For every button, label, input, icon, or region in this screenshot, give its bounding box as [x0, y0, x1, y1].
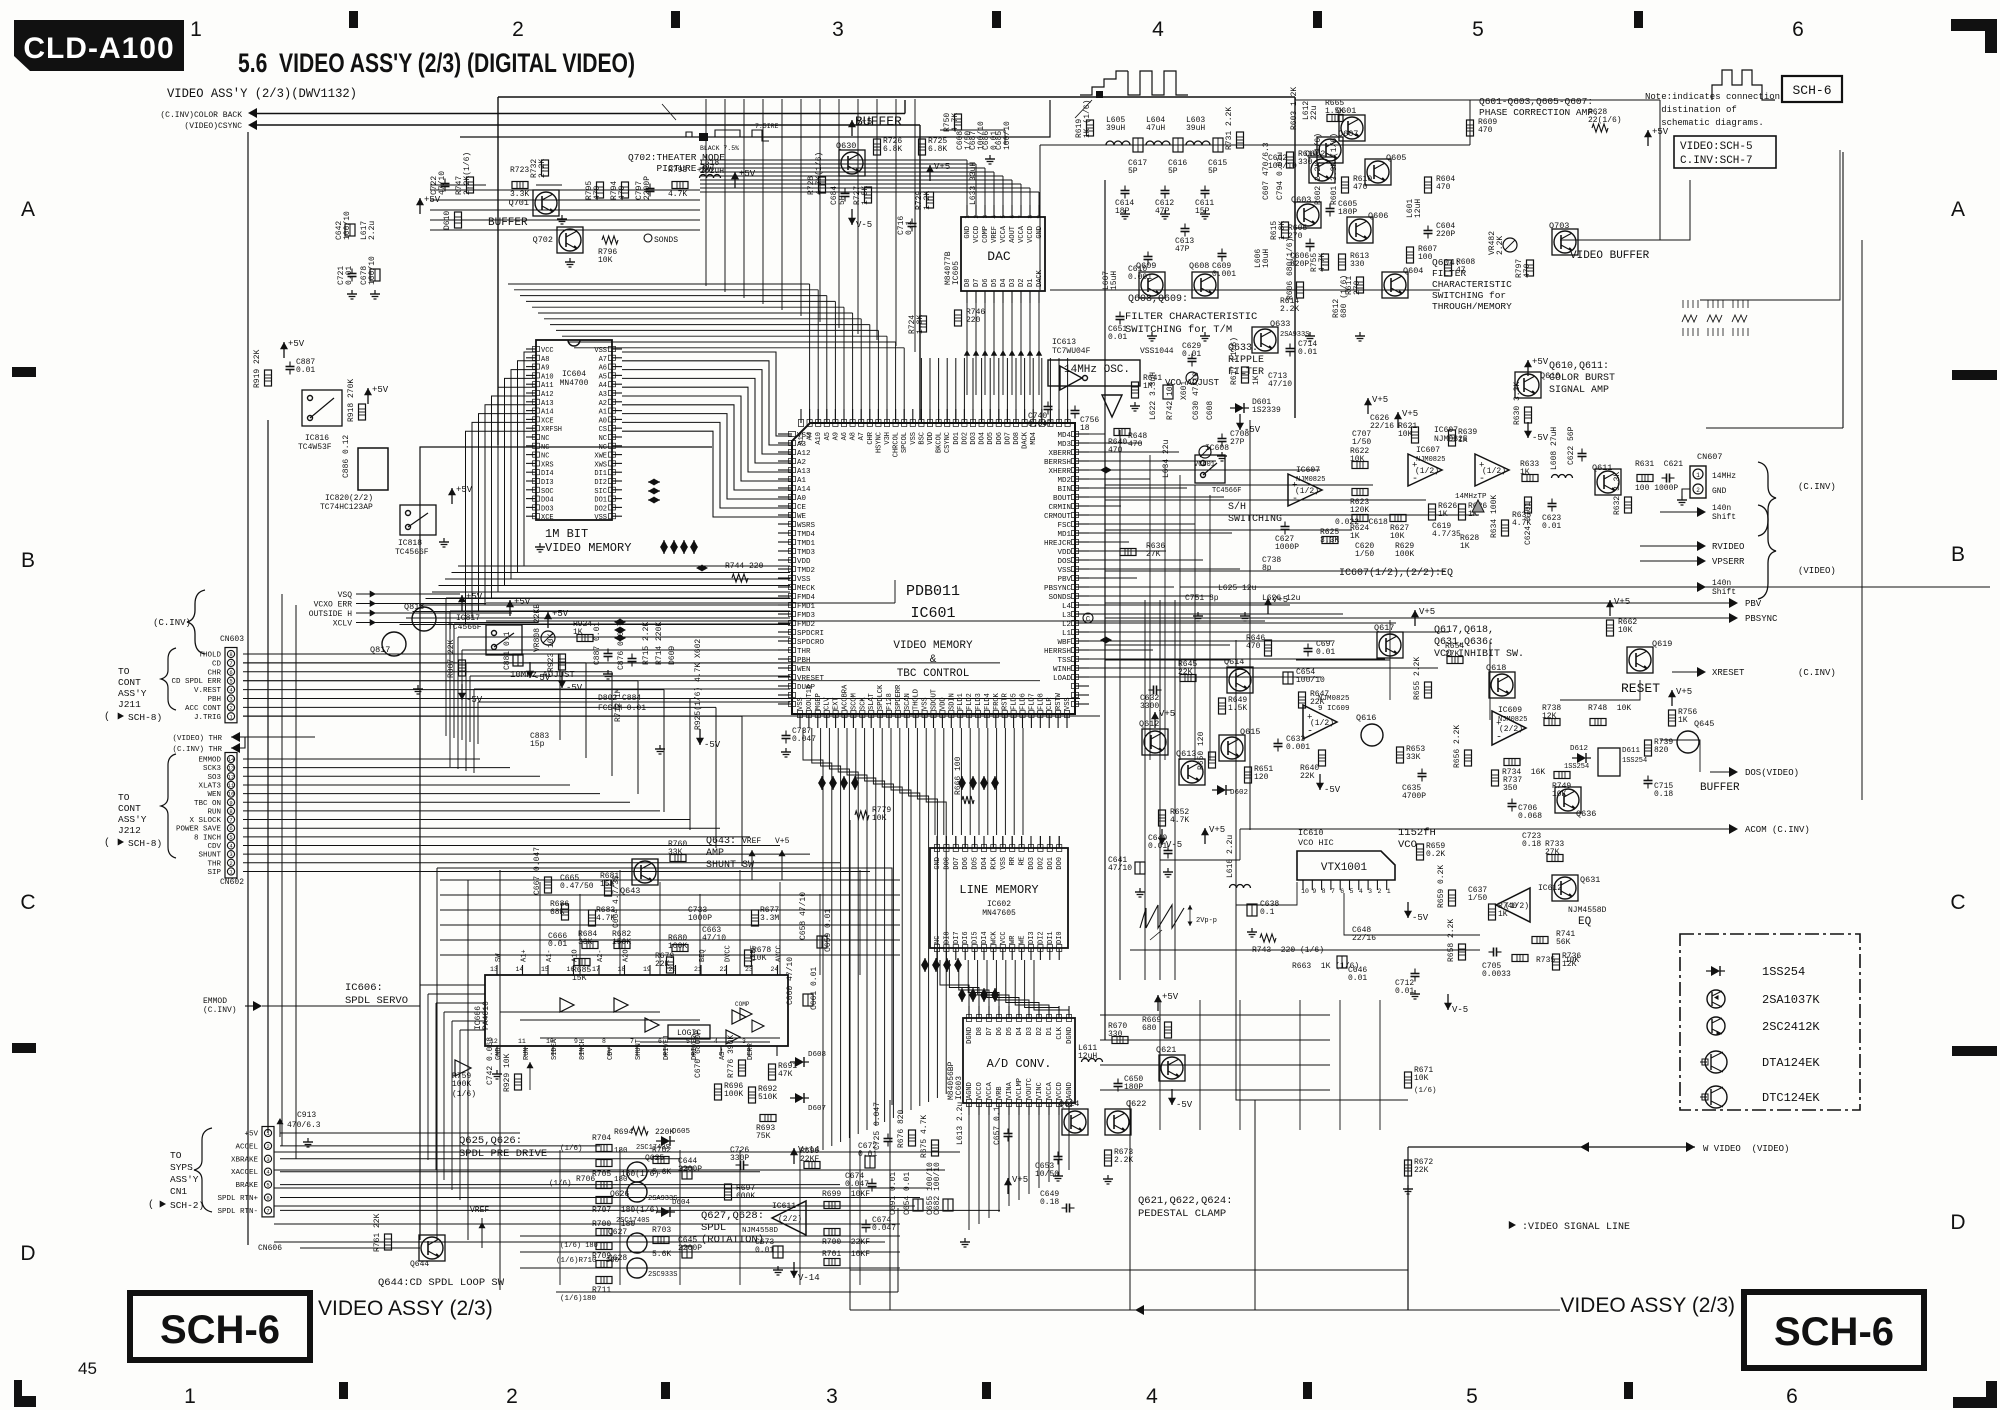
svg-text:C: C [1086, 616, 1090, 624]
capacitor C659 [817, 936, 827, 948]
svg-text:distination of: distination of [1645, 105, 1737, 115]
svg-text:PBSYNC: PBSYNC [1044, 585, 1072, 593]
resistor R624 [1352, 515, 1368, 522]
svg-text:2.2K: 2.2K [1496, 236, 1505, 255]
svg-text:C742 0.068: C742 0.068 [486, 1037, 495, 1085]
svg-text:THR: THR [207, 860, 221, 868]
svg-text:Q633: Q633 [1270, 319, 1290, 329]
svg-text:J.TRIG: J.TRIG [194, 714, 222, 722]
IC604 MN4700 1M bit video memory [536, 340, 612, 520]
svg-text:MD4: MD4 [1030, 432, 1038, 445]
svg-text:XCE: XCE [541, 417, 554, 425]
svg-text:13: 13 [490, 966, 498, 973]
svg-text:A12: A12 [797, 450, 811, 458]
transistor Q626 [627, 1182, 647, 1202]
svg-text:22/16: 22/16 [1352, 934, 1376, 943]
svg-text:4: 4 [991, 215, 998, 219]
resistor R647 [1299, 692, 1306, 708]
svg-text:220P: 220P [1436, 230, 1455, 239]
svg-text:5: 5 [1350, 888, 1354, 895]
transistor Q615 [1219, 735, 1245, 761]
svg-text:WE: WE [1019, 936, 1027, 944]
resistor R650 [1209, 752, 1216, 768]
resistor R639 [1449, 430, 1456, 446]
resistor R652 [1159, 810, 1166, 826]
svg-text:FLD8: FLD8 [1037, 693, 1045, 710]
svg-text:SOC: SOC [541, 488, 554, 496]
diode D601 [1235, 403, 1244, 413]
capacitor C612 [1161, 190, 1170, 192]
svg-text:7: 7 [1018, 215, 1025, 219]
svg-text:L4: L4 [1062, 603, 1072, 611]
power -5V ic609 [1319, 774, 1321, 790]
resistor R630 [1525, 407, 1532, 423]
svg-text:GND: GND [934, 857, 942, 870]
ground R672 [1407, 1185, 1409, 1189]
resistor R666 [962, 796, 974, 804]
bus J211 long runs [243, 662, 1000, 664]
svg-text:A10: A10 [541, 373, 554, 381]
svg-text:XRS: XRS [541, 461, 554, 469]
svg-text:220: 220 [966, 316, 981, 325]
diode D607 [795, 1093, 804, 1103]
svg-text:A3: A3 [599, 391, 607, 399]
capacitor C613 [1181, 228, 1190, 230]
resistor R748 [1590, 719, 1606, 726]
svg-text:A0: A0 [599, 417, 607, 425]
svg-text:Q627: Q627 [608, 1228, 627, 1237]
signal arrows row line memory [921, 958, 929, 965]
svg-text:L634 22u: L634 22u [1162, 439, 1171, 478]
tick mark bottom [339, 1382, 348, 1399]
op-amp IC607a [1288, 474, 1322, 506]
svg-text:1: 1 [1696, 472, 1700, 479]
svg-text:2.2uH: 2.2uH [700, 167, 724, 176]
wire right vertical 2 [1861, 240, 1863, 640]
svg-text:C682 100/10: C682 100/10 [933, 1162, 942, 1215]
svg-text:2SC1740S: 2SC1740S [616, 1217, 650, 1225]
power V+5 reset [1609, 600, 1611, 616]
resistor R632 [1625, 497, 1632, 513]
svg-text:CSYNC: CSYNC [944, 432, 952, 453]
svg-text:THROUGH/MEMORY: THROUGH/MEMORY [1432, 301, 1512, 312]
IC606 internal amp 1 [455, 1060, 471, 1076]
svg-text:R659 0.2K: R659 0.2K [1437, 865, 1446, 908]
transistor Q613 [1179, 759, 1205, 785]
svg-text:R655 2.2K: R655 2.2K [1413, 657, 1422, 700]
svg-text:DI0: DI0 [1056, 931, 1064, 944]
legend transistor DTC124EK [1705, 1086, 1727, 1108]
S/H area wires [1105, 469, 1320, 471]
capacitor C726 [740, 1161, 742, 1170]
svg-text:L2: L2 [1062, 621, 1071, 629]
svg-text:HREJCR: HREJCR [1044, 540, 1072, 548]
waveform 7.5IRE black level symbol [679, 132, 699, 137]
svg-text:AGND: AGND [966, 1082, 974, 1099]
svg-text:330: 330 [1350, 260, 1365, 269]
label video signal line legend [1509, 1221, 1516, 1229]
IC601 pin number band right [1072, 431, 1079, 436]
svg-text:(1/6): (1/6) [452, 1090, 476, 1099]
svg-text:RSTW: RSTW [1055, 692, 1063, 710]
svg-text:(C.INV): (C.INV) [153, 618, 191, 628]
svg-text:R743 220 (1/6): R743 220 (1/6) [1252, 946, 1324, 955]
inverter IC613b [1102, 395, 1122, 417]
capacitor C725 [884, 1138, 893, 1140]
svg-text:R606 680(1/6): R606 680(1/6) [1286, 238, 1295, 300]
svg-text:GND: GND [1712, 487, 1727, 496]
resistor R648b [1319, 750, 1326, 766]
svg-text:6.8K: 6.8K [928, 145, 947, 154]
svg-text:-5V: -5V [534, 673, 551, 683]
capacitor C740 [1044, 406, 1053, 408]
transistor Q645 [1677, 731, 1699, 753]
svg-text:DO7: DO7 [953, 857, 961, 870]
svg-text:A7: A7 [858, 432, 866, 440]
svg-text:C751 8p: C751 8p [1185, 594, 1219, 603]
svg-text:8INCH: 8INCH [579, 1039, 587, 1060]
capacitor C635 [1418, 773, 1427, 775]
bus below IC604 to left arrows [430, 593, 460, 595]
svg-text:2: 2 [1377, 888, 1381, 895]
svg-text:Q619: Q619 [1652, 639, 1672, 649]
svg-text:10K: 10K [872, 814, 887, 823]
svg-text:17: 17 [592, 966, 600, 973]
svg-text:Q630: Q630 [836, 141, 856, 151]
resistor R749 [1554, 772, 1570, 779]
svg-text:IC817: IC817 [456, 614, 480, 623]
svg-text:(: ( [148, 1199, 154, 1211]
svg-text:WE: WE [797, 513, 807, 521]
svg-text:-5V: -5V [1244, 425, 1261, 435]
svg-text:1SS254: 1SS254 [1762, 965, 1805, 979]
transistor Q625 [627, 1162, 647, 1182]
svg-text:VIDEO MEMORY: VIDEO MEMORY [545, 541, 631, 555]
svg-text:4.7K: 4.7K [668, 190, 687, 199]
svg-text:Q610: Q610 [1540, 371, 1560, 381]
inductor L618 [700, 175, 721, 179]
frame around SPDL servo region [437, 868, 892, 1105]
resistor R613 [1339, 254, 1346, 270]
svg-text:C886 0.12: C886 0.12 [342, 435, 351, 478]
svg-text:TMD3: TMD3 [797, 549, 816, 557]
svg-text:LOAD: LOAD [1053, 675, 1072, 683]
svg-text:NJM4558D: NJM4558D [742, 1227, 779, 1235]
svg-text:IC611: IC611 [772, 1202, 796, 1211]
svg-text:D605: D605 [672, 1128, 691, 1136]
svg-text:Q617,Q618,: Q617,Q618, [1434, 625, 1494, 636]
svg-text:10K: 10K [598, 256, 613, 265]
svg-text:3300: 3300 [1140, 702, 1159, 711]
svg-text:V-14: V-14 [798, 1273, 820, 1283]
svg-text:Q644: Q644 [410, 1260, 429, 1269]
resistor R655 [1425, 682, 1432, 698]
svg-text:56K: 56K [1556, 938, 1571, 947]
top DAC vertical drops [966, 303, 968, 395]
svg-text:VCCA: VCCA [1000, 225, 1008, 243]
capacitor C887 [286, 366, 295, 368]
svg-text:FLD5: FLD5 [1011, 693, 1019, 710]
corner mark top right [1951, 19, 1997, 31]
svg-text:5P: 5P [1208, 167, 1218, 176]
svg-text:L613 2.2u: L613 2.2u [956, 1102, 965, 1145]
power V-5 eq [1447, 994, 1449, 1010]
power -5V R630 [1527, 422, 1529, 438]
svg-text:SLAT: SLAT [868, 693, 876, 710]
svg-text:10uH: 10uH [1262, 249, 1271, 268]
svg-text:180: 180 [614, 1147, 628, 1155]
VCO area wires [1236, 882, 1297, 905]
svg-text:2.2K: 2.2K [538, 159, 547, 178]
svg-text:3: 3 [1368, 888, 1372, 895]
svg-text:0.0033: 0.0033 [1482, 970, 1511, 979]
svg-text:BIN: BIN [1057, 486, 1071, 494]
svg-text:1K: 1K [1438, 510, 1448, 519]
svg-text:680 (1/6): 680 (1/6) [1340, 275, 1349, 318]
resistor R887 [459, 660, 466, 676]
svg-text:6: 6 [229, 825, 232, 832]
svg-text:VTX1001: VTX1001 [1321, 862, 1368, 874]
svg-text:DO1: DO1 [953, 432, 961, 445]
resistor R701 [824, 1259, 840, 1266]
svg-text:47/10: 47/10 [702, 934, 726, 943]
wire left main vertical [247, 132, 249, 1245]
svg-text:A7: A7 [599, 356, 607, 364]
label 14MHz OSC [1048, 360, 1140, 386]
IC601 pin number band top [798, 420, 803, 427]
diode D604 [661, 1207, 670, 1217]
svg-text:DO2: DO2 [1037, 857, 1045, 870]
svg-text:A9: A9 [541, 365, 549, 373]
resistor R756 [1669, 710, 1676, 726]
svg-text:(: ( [104, 837, 110, 849]
ground Q702 [569, 258, 571, 262]
sawtooth waveform [1140, 905, 1184, 928]
wire left vertical 4 [295, 605, 297, 1159]
svg-text:ASS'Y: ASS'Y [118, 814, 147, 825]
svg-text:C630 47/10: C630 47/10 [1192, 372, 1201, 420]
svg-text:0.047: 0.047 [845, 1180, 869, 1189]
tick mark left edge [12, 1043, 36, 1053]
svg-text:VCCD: VCCD [1056, 1082, 1064, 1099]
resistor R617 [1242, 367, 1249, 383]
svg-text:VSS: VSS [1000, 857, 1008, 870]
svg-text:V+5: V+5 [775, 837, 790, 846]
svg-text:5P: 5P [1168, 167, 1178, 176]
svg-text:0.1: 0.1 [1260, 908, 1275, 917]
resistor R678 [745, 950, 752, 966]
svg-text:R923 10K: R923 10K [547, 633, 556, 672]
svg-text:75K: 75K [756, 1132, 771, 1141]
svg-text:J212: J212 [118, 825, 141, 836]
svg-text:FLD6: FLD6 [1020, 693, 1028, 710]
svg-text:SPDLCK: SPDLCK [877, 684, 885, 710]
svg-text:FILTER CHARACTERISTIC: FILTER CHARACTERISTIC [1125, 311, 1257, 323]
svg-text:2SC933S: 2SC933S [648, 1271, 677, 1279]
capacitor C705 [1493, 948, 1495, 957]
resistor R747 [467, 177, 474, 193]
svg-text:330: 330 [1298, 158, 1313, 167]
trimmer mark [1472, 500, 1484, 512]
svg-text:0.047: 0.047 [792, 735, 816, 744]
svg-text:VREF: VREF [991, 226, 999, 243]
svg-text:XLAT3: XLAT3 [198, 782, 221, 790]
svg-text:C691 0.01: C691 0.01 [889, 1172, 898, 1215]
transistor Q643 [632, 859, 658, 885]
svg-text:SIP: SIP [207, 869, 221, 877]
capacitor C651 [1116, 316, 1125, 318]
resistor R683 [589, 910, 596, 926]
svg-text:3: 3 [982, 215, 989, 219]
svg-text:-5V: -5V [1176, 1100, 1193, 1110]
svg-text:AVCC: AVCC [776, 945, 784, 962]
svg-text:(C.INV) THR: (C.INV) THR [172, 746, 222, 754]
svg-text:V+5: V+5 [1402, 409, 1418, 419]
capacitor C706 [1508, 803, 1517, 805]
svg-text:SCH-2): SCH-2) [170, 1200, 204, 1211]
svg-text:A9: A9 [832, 432, 840, 440]
power V+5 sh [1397, 412, 1399, 428]
svg-text:4: 4 [1146, 1385, 1158, 1408]
svg-text:100K: 100K [452, 1080, 471, 1089]
resistor R669 [1165, 1022, 1172, 1038]
resistor R744 [732, 574, 748, 582]
capacitor C674b [862, 1224, 871, 1226]
capacitor C609 [1218, 253, 1227, 255]
svg-text:C658 47/10: C658 47/10 [799, 892, 808, 940]
svg-text:A3: A3 [797, 441, 807, 449]
svg-text:A1O: A1O [572, 949, 580, 962]
svg-text:Q644:CD SPDL LOOP SW: Q644:CD SPDL LOOP SW [378, 1277, 505, 1289]
svg-text:6: 6 [229, 669, 232, 676]
svg-text:SHUNT: SHUNT [198, 852, 221, 860]
svg-text:330: 330 [1108, 1030, 1123, 1039]
resistor R651 [1245, 767, 1252, 783]
svg-text:BLACK 7.5%: BLACK 7.5% [700, 145, 739, 152]
svg-text:AS-: AS- [719, 1047, 727, 1060]
resistor R693 [760, 1115, 776, 1122]
ground IC604 [539, 543, 541, 547]
svg-text:8: 8 [229, 808, 232, 815]
capacitor C638 [1247, 904, 1257, 916]
svg-text:A1: A1 [599, 409, 607, 417]
svg-text:Q625: Q625 [645, 1154, 664, 1163]
svg-text:5.6K: 5.6K [652, 1250, 671, 1259]
svg-text:TBC ON: TBC ON [194, 800, 221, 808]
svg-text:POWER SAVE: POWER SAVE [176, 826, 222, 834]
sheet label box SCH-6 top [1782, 76, 1842, 102]
svg-text:0.01: 0.01 [1182, 350, 1201, 359]
resistor R659 [1449, 890, 1456, 906]
svg-text:-: - [1307, 727, 1313, 738]
signal arrows row above IC601 left [660, 540, 668, 547]
wire Q644 area [300, 1247, 420, 1249]
svg-text:Q703: Q703 [1549, 221, 1569, 231]
svg-text:470/6.3: 470/6.3 [287, 1121, 321, 1130]
IC604 pin number bands [533, 346, 540, 351]
resistor R686b [562, 904, 569, 920]
resistor R797 [1527, 260, 1534, 276]
transistor Q631 [1552, 875, 1578, 901]
transistor Q616 [1361, 724, 1383, 746]
svg-text:X601: X601 [1180, 381, 1189, 400]
capacitor C604 [1424, 230, 1433, 232]
svg-text:WEN: WEN [207, 791, 221, 799]
svg-text:Q615: Q615 [1240, 727, 1260, 737]
waveform staircase top [1080, 71, 1128, 95]
capacitor C623 [1548, 503, 1557, 505]
wire top csync [250, 124, 920, 126]
svg-text:DERR: DERR [747, 1042, 755, 1060]
svg-text:DO2: DO2 [594, 505, 607, 513]
capacitor C606 [1306, 243, 1315, 245]
sheet label box SCH-6 bottom left [130, 1293, 310, 1360]
svg-text:NC: NC [541, 435, 549, 443]
svg-text:CN606: CN606 [258, 1244, 282, 1253]
svg-text:RUN: RUN [523, 1047, 531, 1060]
svg-text:-5V: -5V [566, 683, 583, 693]
svg-text:39uH: 39uH [1106, 124, 1125, 133]
svg-text:DOS(VIDEO): DOS(VIDEO) [1745, 768, 1799, 778]
power V-5 buffer [851, 209, 853, 225]
trimmer VCO adjust [1186, 372, 1198, 384]
svg-text:PBV: PBV [1057, 576, 1071, 584]
resistor R724 [920, 316, 927, 332]
svg-text:VREF: VREF [742, 837, 761, 846]
svg-text:DI7: DI7 [953, 931, 961, 944]
svg-text:1.8K: 1.8K [1278, 221, 1287, 240]
svg-text:SCH-8): SCH-8) [128, 712, 162, 723]
svg-text:DO8: DO8 [1013, 432, 1021, 445]
svg-text:4.7K: 4.7K [951, 113, 960, 132]
svg-text:D602: D602 [1230, 789, 1248, 797]
svg-text:21: 21 [694, 966, 702, 973]
svg-text:R731 2.2K: R731 2.2K [1225, 107, 1234, 150]
svg-text:VDD: VDD [1057, 549, 1071, 557]
svg-text:BOUT: BOUT [1053, 495, 1072, 503]
resistor R760 [670, 855, 686, 862]
svg-text:100/10: 100/10 [1296, 676, 1325, 685]
resistor R750 [955, 114, 962, 130]
svg-text:AMP: AMP [706, 848, 724, 859]
svg-text:-5V: -5V [704, 740, 721, 750]
svg-text:IC613: IC613 [1052, 338, 1076, 347]
svg-text:(C.INV): (C.INV) [1798, 482, 1836, 492]
svg-text:VCCA: VCCA [986, 1081, 994, 1099]
svg-text:XOUT16: XOUT16 [806, 685, 814, 710]
svg-text:2: 2 [506, 1385, 518, 1408]
svg-text:D5: D5 [991, 279, 999, 287]
wire frame around left circuits [420, 447, 712, 1240]
svg-text:(1/6): (1/6) [560, 1145, 583, 1153]
svg-text:22(1/6): 22(1/6) [1588, 116, 1622, 125]
svg-text:14: 14 [228, 756, 235, 763]
diode D610 [455, 212, 462, 228]
inductor L604 [1146, 141, 1170, 145]
resistor R659b [1417, 844, 1424, 860]
wires pedestal area [1100, 1014, 1330, 1016]
svg-text:PBSYNC: PBSYNC [1745, 614, 1778, 624]
resistor R627 [1390, 515, 1406, 522]
resistor R662 [1607, 620, 1614, 636]
svg-text:1.8K: 1.8K [916, 315, 925, 334]
svg-text:R887 22K: R887 22K [447, 639, 456, 678]
svg-text:0.01: 0.01 [1542, 522, 1561, 531]
svg-text:(2/2): (2/2) [778, 1215, 802, 1224]
svg-text:AGND: AGND [1066, 1082, 1074, 1099]
svg-text:CHR: CHR [867, 431, 875, 444]
svg-text:R925(1/6) 4.7K X602: R925(1/6) 4.7K X602 [694, 639, 703, 730]
